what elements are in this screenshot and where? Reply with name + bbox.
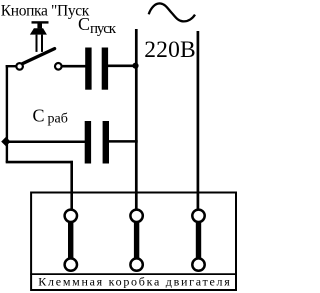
- terminal box: divider line above label: [30, 273, 236, 275]
- terminal T1: lower circle: [65, 258, 77, 270]
- svg-text:Кнопка "Пуск: Кнопка "Пуск: [1, 2, 90, 19]
- AC source symbol: sine tilde: [149, 3, 195, 21]
- wire: lead from junction to capacitor Сраб left plate: [5, 140, 86, 143]
- terminal box: outline rectangle: [31, 193, 236, 291]
- terminal T1: upper circle: [65, 210, 77, 222]
- terminal T3: upper circle: [192, 210, 204, 222]
- capacitor Спуск: left plate: [85, 48, 91, 90]
- push button SB "Пуск": top T-bar of plunger: [32, 21, 49, 23]
- wire: short horizontal lead from left wire to button left contact: [6, 65, 17, 67]
- push button SB: switch blade (open): [23, 49, 55, 64]
- junction: diamond node on left wire at running-capacitor tap: [1, 137, 10, 146]
- wire: lead from button right contact to capacitor Спуск left plate: [60, 65, 86, 68]
- wire: vertical drop into terminal 1 of motor box: [70, 161, 73, 211]
- push button SB: plunger stem upper: [37, 23, 42, 28]
- push button SB: right guide leg: [41, 35, 43, 52]
- wire: lead from capacitor Сраб right plate to supply wire L1: [109, 140, 138, 143]
- push button SB: left guide leg: [36, 35, 38, 52]
- wire: lead from capacitor Спуск right plate to supply wire (node A): [108, 65, 137, 68]
- terminal T2: lower circle: [130, 258, 142, 270]
- push button SB: left contact circle: [16, 63, 23, 70]
- capacitor Спуск: right plate: [102, 48, 108, 90]
- wire: supply line L1 vertical down to terminal 2: [135, 29, 138, 211]
- svg-text:220В: 220В: [144, 37, 196, 63]
- terminal T2: upper circle: [130, 210, 142, 222]
- terminal T2: connecting bar: [134, 220, 139, 260]
- terminal T3: lower circle: [192, 258, 204, 270]
- junction: dot node A where Спуск connects to supply line L1: [132, 63, 138, 69]
- terminal T1: connecting bar: [68, 220, 73, 260]
- wire: left vertical from button contact down to bottom-left corner: [6, 65, 8, 162]
- capacitor Сраб: right plate: [103, 121, 109, 164]
- push button SB: plunger cap trapezoid: [30, 28, 47, 34]
- wire: horizontal segment at bottom going right to terminal 1: [6, 161, 73, 164]
- push button SB: right contact circle: [55, 63, 62, 70]
- terminal T3: connecting bar: [196, 220, 201, 260]
- capacitor Сраб: left plate: [85, 121, 91, 164]
- wire: supply line L2 vertical down to terminal 3: [197, 31, 200, 211]
